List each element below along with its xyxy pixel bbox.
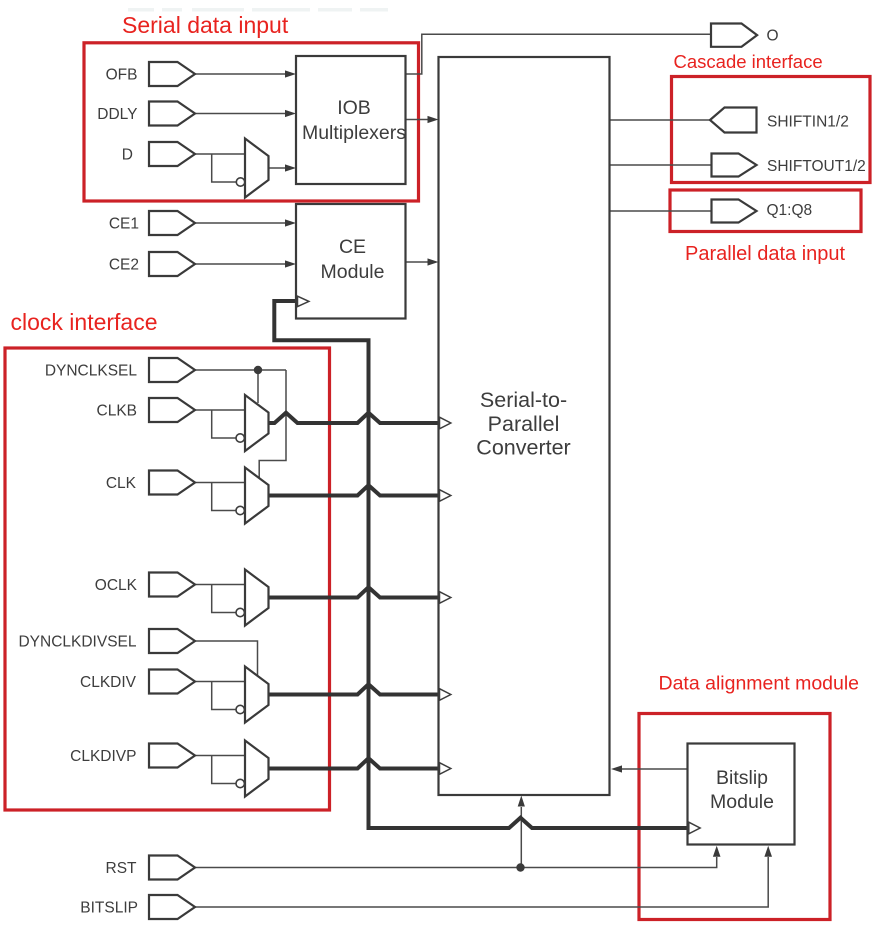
- svg-text:CE2: CE2: [109, 257, 139, 274]
- svg-text:Parallel data input: Parallel data input: [685, 243, 846, 265]
- svg-text:CLK: CLK: [106, 475, 137, 492]
- svg-text:Cascade interface: Cascade interface: [674, 51, 823, 72]
- svg-text:Module: Module: [321, 261, 385, 283]
- svg-text:Parallel: Parallel: [488, 412, 560, 436]
- svg-text:Q1:Q8: Q1:Q8: [767, 202, 813, 219]
- svg-text:CLKDIV: CLKDIV: [80, 674, 137, 691]
- svg-text:DDLY: DDLY: [97, 106, 137, 123]
- svg-text:CLKB: CLKB: [97, 403, 138, 420]
- svg-text:SHIFTOUT1/2: SHIFTOUT1/2: [767, 158, 866, 175]
- svg-text:Data alignment module: Data alignment module: [659, 673, 860, 695]
- svg-text:O: O: [767, 28, 779, 45]
- svg-text:CLKDIVP: CLKDIVP: [70, 748, 136, 765]
- svg-text:Serial-to-: Serial-to-: [480, 388, 567, 412]
- svg-text:OFB: OFB: [106, 67, 138, 84]
- svg-text:Serial data input: Serial data input: [122, 12, 289, 38]
- svg-text:CE1: CE1: [109, 216, 139, 233]
- svg-text:D: D: [122, 147, 133, 164]
- svg-text:Converter: Converter: [476, 436, 570, 460]
- svg-text:Multiplexers: Multiplexers: [302, 122, 406, 144]
- svg-text:CE: CE: [339, 236, 366, 258]
- svg-text:SHIFTIN1/2: SHIFTIN1/2: [767, 114, 849, 131]
- svg-text:DYNCLKDIVSEL: DYNCLKDIVSEL: [18, 634, 136, 651]
- svg-text:OCLK: OCLK: [95, 577, 138, 594]
- svg-text:RST: RST: [106, 860, 138, 877]
- svg-text:clock interface: clock interface: [11, 309, 158, 335]
- svg-text:DYNCLKSEL: DYNCLKSEL: [45, 363, 138, 380]
- svg-text:BITSLIP: BITSLIP: [80, 900, 138, 917]
- svg-text:Module: Module: [710, 791, 774, 813]
- svg-text:IOB: IOB: [337, 97, 371, 119]
- svg-text:Bitslip: Bitslip: [716, 767, 768, 789]
